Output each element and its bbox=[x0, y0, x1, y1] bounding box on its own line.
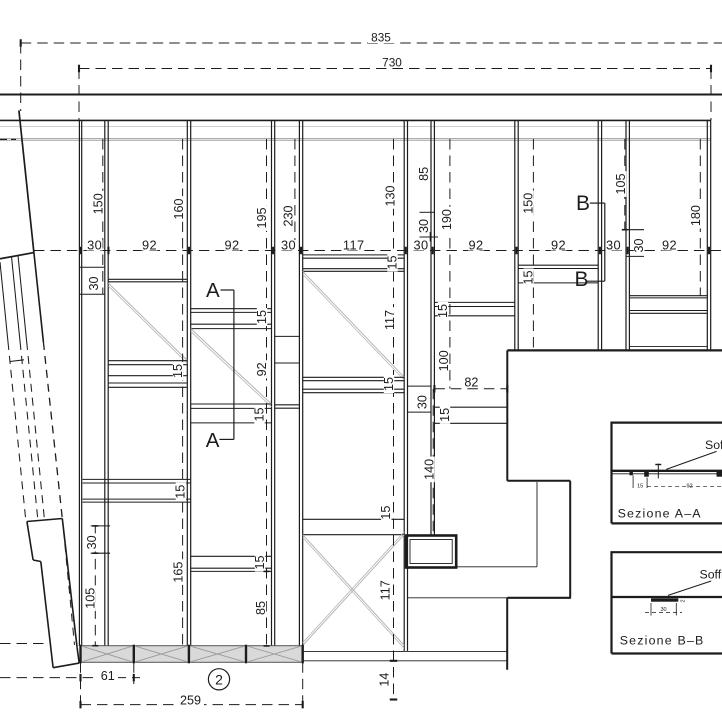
node label rotated 92 bbox=[257, 360, 267, 378]
node label rotated 85 bbox=[419, 165, 429, 183]
wall band line 3 solid part bbox=[18, 256, 27, 343]
svg-text:15: 15 bbox=[174, 485, 188, 499]
blocking bay S5-S6 low 15-noggin bbox=[303, 518, 405, 520]
wall lower chunk left edge lower bbox=[41, 562, 53, 668]
svg-text:130: 130 bbox=[383, 185, 397, 206]
node label rotated 180 bbox=[691, 203, 701, 229]
section A-A stud square 3 bbox=[717, 472, 722, 477]
node dim chain tick bbox=[627, 247, 629, 255]
node dim chain tick bbox=[300, 247, 302, 255]
strip cell cross bbox=[81, 646, 134, 663]
node label chain 30 bbox=[606, 240, 622, 251]
svg-text:A: A bbox=[206, 279, 220, 302]
node tick mini30 end bbox=[622, 229, 628, 231]
blocking bay S2-S3 lower pair bbox=[108, 382, 187, 384]
wire dim chain line bbox=[34, 250, 722, 252]
node label rotated 150 bbox=[93, 191, 103, 217]
blocking right of S7 upper 15 bbox=[434, 301, 514, 303]
node label chain 92 bbox=[468, 240, 484, 251]
node label rotated 117 bbox=[385, 307, 395, 333]
wall band outer right edge dashed part bbox=[43, 342, 62, 519]
blocking bay S10-S11 pair b bbox=[629, 310, 707, 312]
section box A-A frame bbox=[612, 423, 722, 524]
wire centerline C8 dim 230 bbox=[294, 139, 296, 251]
node label rotated 150 bbox=[523, 190, 533, 216]
void top edge bbox=[507, 349, 722, 351]
svg-text:Soffitto: Soffitto bbox=[705, 438, 722, 452]
section B-B soffit bar bbox=[651, 598, 678, 601]
void step vertical bbox=[569, 481, 571, 598]
node dim chain tick bbox=[107, 247, 109, 255]
node label chain 117 bbox=[343, 240, 365, 251]
wall lower chunk inner dashed bbox=[64, 530, 75, 645]
strip divider bbox=[133, 645, 135, 664]
svg-text:30: 30 bbox=[87, 276, 101, 290]
blocking bay S10-S11 pair a bbox=[629, 295, 707, 297]
svg-text:15: 15 bbox=[385, 255, 399, 269]
svg-text:Soffitto: Soffitto bbox=[700, 568, 722, 582]
node label chain 30 bbox=[281, 240, 297, 251]
svg-text:92: 92 bbox=[551, 237, 566, 252]
wire dim-line 835 dashed bbox=[21, 42, 722, 44]
node tick 730 right bbox=[710, 65, 712, 73]
node dim chain tick bbox=[272, 247, 274, 255]
blocking bay S4-S5 lower bbox=[275, 362, 300, 364]
node label chain 92 bbox=[224, 240, 240, 251]
node label rotated 30 bbox=[634, 236, 644, 254]
node tick 85-dim ends bbox=[264, 570, 270, 572]
wire A marker bbox=[221, 289, 234, 291]
wall band line 1 dashed part bbox=[8, 342, 26, 520]
svg-text:15: 15 bbox=[382, 377, 396, 391]
svg-text:15: 15 bbox=[252, 407, 266, 421]
node label rotated 14 bbox=[380, 671, 390, 689]
svg-text:15: 15 bbox=[436, 304, 450, 318]
svg-text:92: 92 bbox=[468, 237, 483, 252]
svg-text:195: 195 bbox=[255, 207, 269, 228]
node tick left-of-S7 bbox=[430, 232, 432, 242]
svg-text:150: 150 bbox=[91, 193, 105, 214]
blocking bay S3-S4 15-noggin bbox=[191, 308, 272, 310]
wire extension 730 right bbox=[710, 69, 712, 121]
void left edge lower bbox=[506, 598, 508, 670]
section A-A small tick bbox=[657, 464, 659, 479]
wire extension 730 left bbox=[78, 69, 80, 121]
wire centerline C4 dim 150 left bbox=[102, 139, 104, 294]
svg-text:160: 160 bbox=[172, 198, 186, 219]
wire dim 259 line bbox=[81, 704, 303, 706]
wire centerline C13 dim 105 right bbox=[624, 139, 626, 230]
wire bracket 30 left-of-S7 upper bbox=[420, 211, 435, 213]
section A-A dim ext lines bbox=[632, 476, 634, 489]
stud S7 bbox=[430, 120, 432, 535]
wire bottom thin line b bbox=[303, 660, 508, 662]
section B-B dim line bbox=[645, 612, 682, 614]
svg-text:190: 190 bbox=[440, 209, 454, 230]
stud S4 bbox=[271, 120, 273, 646]
svg-text:835: 835 bbox=[371, 30, 391, 44]
svg-text:30: 30 bbox=[660, 607, 666, 613]
blocking bay S3-S4 low 15-noggin bbox=[191, 555, 272, 557]
wire top wall line lower bbox=[0, 119, 711, 121]
node label rotated 105 bbox=[85, 585, 95, 611]
svg-text:92: 92 bbox=[687, 483, 693, 489]
blocking bay S6-S7 30-block bbox=[408, 385, 432, 387]
svg-text:Sezione A–A: Sezione A–A bbox=[618, 507, 702, 521]
node label rotated 15 bbox=[257, 308, 267, 326]
wire centerline C6 dim 160-165 bbox=[182, 139, 184, 646]
node label rotated 30 bbox=[417, 393, 427, 411]
node label rotated 230 bbox=[283, 203, 293, 229]
svg-text:15: 15 bbox=[255, 310, 269, 324]
node dim chain tick bbox=[432, 247, 434, 255]
node callout circle 2 bbox=[208, 669, 229, 690]
section A-A leader bbox=[666, 451, 716, 469]
node tick 105-dim ends bbox=[92, 525, 98, 527]
svg-text:730: 730 bbox=[382, 56, 402, 70]
wire thin inner horizontal y566.8 bbox=[456, 566, 537, 568]
hatch diagonal bay S2-S3 bbox=[108, 283, 187, 361]
svg-text:30: 30 bbox=[606, 237, 621, 252]
node label rotated 30 bbox=[89, 274, 99, 292]
wire dashed stub bottom-left bbox=[0, 643, 48, 645]
box fixture outer bbox=[406, 536, 456, 568]
node label chain 92 bbox=[662, 240, 678, 251]
section B-B dim ext lines bbox=[650, 603, 652, 616]
stud S2 bbox=[104, 120, 106, 646]
svg-text:150: 150 bbox=[521, 193, 535, 214]
svg-text:105: 105 bbox=[614, 173, 628, 194]
svg-text:B: B bbox=[576, 192, 590, 215]
wall band outer right edge solid part bbox=[34, 253, 44, 342]
wall lower chunk bottom cap bbox=[53, 663, 79, 668]
section B-B tiny label 2 bbox=[681, 599, 687, 602]
svg-text:30: 30 bbox=[632, 238, 646, 252]
strip cell cross bbox=[134, 646, 189, 663]
stud S10 bbox=[625, 120, 627, 350]
strip divider bbox=[245, 645, 247, 664]
wire centerline C10 dim 190-100 bbox=[449, 139, 451, 389]
node label rotated 15 bbox=[255, 553, 265, 571]
node label rotated 15 bbox=[438, 302, 448, 320]
stud S1 bbox=[78, 120, 80, 646]
svg-text:15: 15 bbox=[438, 408, 452, 422]
node label rotated 140 bbox=[424, 457, 434, 483]
section A-A ceiling line thin bbox=[612, 473, 722, 475]
node label rotated 85 bbox=[256, 599, 266, 617]
svg-text:A: A bbox=[206, 429, 220, 452]
svg-text:30: 30 bbox=[413, 237, 428, 252]
svg-text:15: 15 bbox=[521, 270, 535, 284]
wall lower chunk right edge bbox=[62, 519, 77, 648]
svg-text:92: 92 bbox=[255, 362, 269, 376]
svg-text:15: 15 bbox=[379, 506, 393, 520]
hatch diagonal bay S5-S6 bbox=[303, 271, 405, 377]
svg-text:259: 259 bbox=[180, 694, 201, 708]
wall lower chunk left edge upper bbox=[27, 522, 33, 561]
node tick 82 right bbox=[506, 385, 508, 393]
blocking bay S10-S11 bottom thin bbox=[629, 346, 707, 348]
node dim chain tick bbox=[188, 247, 190, 255]
node label chain 30 bbox=[413, 240, 429, 251]
wall band line 3 dashed part bbox=[27, 342, 45, 519]
node dim chain tick bbox=[708, 247, 710, 255]
node label 835 bbox=[368, 31, 394, 43]
svg-text:15: 15 bbox=[637, 483, 643, 489]
svg-text:82: 82 bbox=[464, 376, 478, 390]
blocking bay S8-S9 15-noggin bbox=[518, 264, 598, 266]
wire B marker bbox=[590, 202, 605, 204]
node label rotated 15 bbox=[387, 253, 397, 271]
wire centerline C11 dim 140 bbox=[432, 389, 434, 536]
svg-text:61: 61 bbox=[101, 669, 115, 683]
wire centerline C15 dim 61 ext bbox=[133, 662, 135, 684]
wire dim 82 line bbox=[434, 388, 507, 390]
blocking bay S3-S4 bottom 15-noggin bbox=[191, 403, 272, 405]
svg-text:165: 165 bbox=[172, 562, 186, 583]
node label rotated 160 bbox=[174, 196, 184, 222]
node tick 61 left bbox=[79, 674, 81, 682]
blocking bay S5-S6 mid 15-noggin bbox=[303, 376, 405, 378]
wire ceiling faint line bbox=[0, 126, 711, 128]
node tick 259 right bbox=[302, 701, 304, 709]
stud S6 bbox=[403, 120, 405, 651]
blocking bracket S9-S10 30-dim bbox=[626, 229, 644, 231]
node label rotated 100 bbox=[439, 348, 449, 374]
node tick 835 left bbox=[20, 39, 22, 47]
node tick 14 dim bottom bbox=[390, 698, 398, 700]
node label 82 bbox=[462, 378, 481, 388]
strip cell cross bbox=[189, 646, 246, 663]
wire bracket 30 top-left lower bbox=[79, 293, 104, 295]
wire ceiling edge dashed left stub bbox=[0, 138, 16, 140]
wire centerline C14 dim 180 bbox=[699, 139, 701, 296]
node label rotated 15 bbox=[384, 375, 394, 393]
node label 61 bbox=[98, 671, 118, 681]
blocking bay S1-S3 15-noggin bbox=[83, 478, 191, 480]
svg-text:2: 2 bbox=[681, 599, 687, 602]
node dim chain tick bbox=[80, 247, 82, 255]
node label 259 bbox=[177, 695, 204, 706]
node label rotated 30 bbox=[419, 217, 429, 235]
node label rotated 165 bbox=[174, 559, 184, 585]
node tick 14 dim bbox=[390, 660, 398, 662]
svg-text:Sezione B–B: Sezione B–B bbox=[620, 634, 705, 648]
box fixture inner bbox=[410, 540, 452, 564]
node label chain 30 bbox=[87, 240, 103, 251]
wire centerline C9 dim 130-117-117-14 bbox=[393, 139, 395, 700]
wire centerline C7 dim 195-92-15-85 bbox=[266, 139, 268, 646]
svg-text:15: 15 bbox=[253, 555, 267, 569]
wall band line 2 solid part bbox=[12, 257, 21, 343]
blocking bracket S1 30-dim bbox=[91, 525, 110, 527]
section A-A dim dashed bbox=[647, 485, 722, 487]
node label rotated 15 bbox=[523, 268, 533, 286]
wall outer edge upper bbox=[19, 110, 34, 252]
svg-text:30: 30 bbox=[85, 535, 99, 549]
svg-text:30: 30 bbox=[417, 219, 431, 233]
wire thin inner vertical x537 bbox=[536, 482, 538, 567]
svg-text:92: 92 bbox=[662, 237, 677, 252]
section A-A stud square 1 bbox=[630, 472, 633, 475]
void step horizontal bbox=[507, 480, 570, 482]
svg-text:85: 85 bbox=[417, 167, 431, 181]
wire centerline C12 dim 150 right bbox=[532, 139, 534, 350]
node tick 82 left bbox=[433, 385, 435, 393]
strip divider bbox=[188, 645, 190, 664]
node label rotated 130 bbox=[385, 183, 395, 209]
stud S9 bbox=[597, 120, 599, 350]
section A-A stud square 2 bbox=[644, 472, 649, 477]
blocking bay S2-S3 hatch top bbox=[108, 278, 187, 280]
wall joint line mid bbox=[10, 360, 24, 362]
node dim chain tick bbox=[515, 247, 517, 255]
node label chain 92 bbox=[142, 240, 158, 251]
node label chain 92 bbox=[551, 240, 567, 251]
wire dim 61 line bbox=[0, 677, 140, 679]
stud S3 bbox=[186, 120, 188, 646]
blocking bay S4-S5 bottom bbox=[275, 404, 300, 406]
wire ceiling edge line upper bbox=[0, 138, 711, 140]
node label rotated 105 bbox=[616, 171, 626, 197]
blocking bay S5-S6 top 15-noggin bbox=[303, 254, 405, 256]
wire ceiling edge line lower bbox=[0, 139, 711, 141]
svg-text:117: 117 bbox=[379, 580, 393, 600]
wire bracket 30 left-of-S7 lower bbox=[420, 236, 439, 238]
wire thin line y598 left part bbox=[408, 597, 508, 599]
wire extension 835 left bbox=[20, 43, 22, 111]
wall band line 2 dashed part bbox=[20, 342, 38, 519]
svg-text:230: 230 bbox=[281, 205, 295, 226]
strip cell cross bbox=[246, 646, 303, 663]
svg-text:B: B bbox=[574, 268, 588, 291]
void left edge upper bbox=[506, 350, 508, 480]
hatch cross bay S5-S6 bottom bbox=[303, 535, 405, 646]
svg-text:105: 105 bbox=[83, 588, 97, 609]
wire top wall line upper bbox=[0, 94, 722, 96]
node tick 730 left bbox=[78, 65, 80, 73]
svg-text:92: 92 bbox=[224, 237, 239, 252]
blocking bay S4-S5 upper bbox=[275, 335, 300, 337]
section box B-B frame bbox=[612, 552, 722, 653]
wall band line 1 solid part bbox=[0, 262, 8, 342]
blocking bay S2-S3 15-noggin bbox=[108, 360, 187, 362]
svg-text:100: 100 bbox=[437, 350, 451, 371]
stud S5 bbox=[298, 120, 300, 646]
svg-text:14: 14 bbox=[378, 673, 392, 687]
hatch diagonal bay S3-S4 bbox=[191, 329, 272, 404]
strip hatched wall bottom bbox=[81, 646, 303, 663]
svg-text:2: 2 bbox=[215, 671, 223, 687]
wire centerline C5 dim 30-105 left bbox=[94, 526, 96, 660]
node label rotated 15 bbox=[381, 504, 391, 522]
svg-text:30: 30 bbox=[281, 237, 296, 252]
section B-B ceiling line thick bbox=[612, 596, 722, 598]
wire dim 259 ext right bbox=[302, 662, 304, 710]
node label rotated 15 bbox=[254, 405, 264, 423]
wire dim 259 ext left bbox=[80, 662, 82, 710]
wall lower chunk step bbox=[33, 560, 41, 562]
section B-B leader bbox=[668, 581, 711, 595]
svg-text:30: 30 bbox=[87, 237, 102, 252]
svg-text:15: 15 bbox=[171, 364, 185, 378]
blocking right of S7 lower 15 bbox=[434, 406, 507, 408]
wall lower chunk top edge bbox=[27, 519, 62, 522]
svg-text:117: 117 bbox=[343, 237, 365, 252]
wire dim-line 730 dashed bbox=[79, 68, 711, 70]
node label rotated 15 bbox=[440, 406, 450, 424]
node tick 259 left bbox=[79, 701, 81, 709]
strip divider bbox=[79, 645, 81, 664]
node dim chain tick bbox=[599, 247, 601, 255]
stud S11 bbox=[706, 120, 708, 350]
node label rotated 195 bbox=[257, 205, 267, 231]
svg-text:85: 85 bbox=[254, 601, 268, 615]
node label rotated 15 bbox=[173, 362, 183, 380]
section A-A ceiling line thick bbox=[612, 470, 722, 472]
wall corner segment bbox=[0, 253, 34, 259]
stud S8 bbox=[514, 120, 516, 350]
svg-text:117: 117 bbox=[383, 310, 397, 330]
node label rotated 117 bbox=[381, 577, 391, 603]
strip divider bbox=[302, 645, 304, 664]
wire bracket 30 top-left upper bbox=[79, 266, 104, 268]
wire bottom thin line a bbox=[303, 650, 508, 652]
node tick 61 right bbox=[133, 674, 135, 682]
node label 730 bbox=[379, 56, 405, 68]
node dim chain tick bbox=[405, 247, 407, 255]
node label rotated 30 bbox=[87, 533, 97, 551]
void bottom edge bbox=[507, 597, 571, 599]
node label rotated 15 bbox=[176, 483, 186, 501]
svg-text:180: 180 bbox=[689, 205, 703, 226]
node label rotated 190 bbox=[442, 207, 452, 233]
svg-text:140: 140 bbox=[422, 459, 436, 480]
svg-text:92: 92 bbox=[142, 237, 157, 252]
svg-text:30: 30 bbox=[415, 395, 429, 409]
